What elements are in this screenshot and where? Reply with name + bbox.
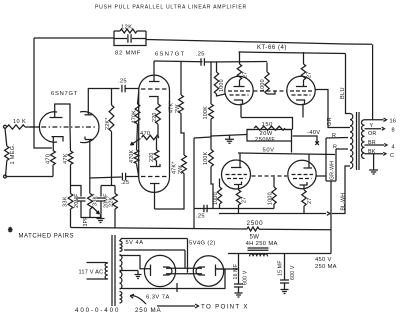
label .25 no4 <box>121 180 130 186</box>
label 250MA r <box>315 264 337 270</box>
x mark bias <box>315 141 319 145</box>
cathode bar KT3 <box>231 167 242 169</box>
label 20MF no2 <box>104 193 110 208</box>
label 27 no4 <box>307 198 313 204</box>
arrowhead plate rail <box>327 212 330 216</box>
PT sec 6.3V coil <box>120 292 122 303</box>
label 50V <box>263 148 275 154</box>
note matched pairs <box>8 227 74 240</box>
resistor 22K-star grid leak <box>109 105 114 132</box>
svg-text:400-0-400: 400-0-400 <box>75 307 120 314</box>
wire 5V top <box>120 239 188 242</box>
wire 220-2 top <box>156 138 158 151</box>
svg-text:3PF: 3PF <box>83 216 89 226</box>
label 117VAC <box>79 270 104 276</box>
wire top rail left <box>34 37 114 39</box>
svg-text:.25: .25 <box>196 52 205 58</box>
svg-text:8: 8 <box>392 128 395 134</box>
svg-text:5V 4A: 5V 4A <box>126 240 144 246</box>
svg-text:6SN7GT: 6SN7GT <box>155 52 185 58</box>
wire HV top to T5 plate <box>120 256 150 269</box>
resistor 47K* 2W no1 <box>179 95 184 113</box>
wire 33K to B+ rail <box>70 209 72 228</box>
label 5W <box>250 234 260 240</box>
svg-text:470: 470 <box>140 131 151 137</box>
wire 100K2 bottom <box>211 167 213 209</box>
wire 5V lower <box>124 249 185 251</box>
wire 1000-2 leads <box>267 63 275 95</box>
wire top rail right <box>146 40 372 45</box>
svg-text:22K*: 22K* <box>105 117 111 130</box>
label 470K no2 <box>129 149 135 163</box>
label 27 no2 <box>307 72 313 78</box>
wire V2 top plate to coupling <box>154 60 203 63</box>
plate bar V2 bottom <box>150 183 160 185</box>
svg-text:33K: 33K <box>63 196 69 207</box>
wire through fb box <box>114 38 146 40</box>
wire junction to 20MF <box>71 186 82 197</box>
resistor 470K no1 <box>135 104 140 124</box>
cathode bar KT2 <box>296 100 305 104</box>
label 600V no1 <box>243 270 249 285</box>
label .25 no2 <box>196 52 205 58</box>
svg-text:16 MF: 16 MF <box>233 264 239 280</box>
capacitor .25 no2 <box>201 58 204 66</box>
tube V2 bottom dome <box>139 177 170 192</box>
wire lower grid bus <box>194 208 274 210</box>
PT sec 5V coil <box>120 241 123 252</box>
label 100K no1 <box>203 106 209 120</box>
wire 47K*1 top <box>180 61 182 95</box>
svg-text:1 MEG.: 1 MEG. <box>10 144 16 165</box>
label 27 no3 <box>242 197 248 203</box>
wire plate bus upper <box>239 52 346 54</box>
tube KT66 no3 <box>222 160 251 189</box>
wire 47K to 33K <box>70 165 72 194</box>
svg-text:27: 27 <box>307 72 313 78</box>
svg-text:47K*: 47K* <box>169 100 175 113</box>
svg-text:GR-WH: GR-WH <box>330 161 336 180</box>
wire 47K*2 bottom <box>155 174 185 210</box>
label 4H 250MA <box>246 241 278 247</box>
label BK <box>368 149 376 155</box>
label OR <box>368 131 377 137</box>
label 10 K <box>13 119 26 125</box>
svg-text:33K*: 33K* <box>93 193 99 206</box>
tube V2 top dome <box>139 75 170 90</box>
label 8 <box>392 128 395 134</box>
wire input to grid <box>25 126 39 128</box>
PT primary coil <box>105 263 108 280</box>
wire 1000-1 leads <box>217 62 226 96</box>
wire 47K*1 to 47K*2 <box>181 114 184 156</box>
wire KT1 cathode <box>240 104 242 118</box>
svg-text:1000: 1000 <box>219 79 225 92</box>
label GR <box>327 117 333 126</box>
plate bar V1b <box>85 114 93 116</box>
wire feedback left vertical <box>34 38 52 148</box>
resistor 470K no2 <box>134 150 139 163</box>
arrow 8 <box>382 127 385 130</box>
wire B+ rail left <box>71 228 248 230</box>
grid dash V2 bottom <box>141 176 168 178</box>
label 600V no2 <box>290 265 296 280</box>
resistor 27 no3 <box>236 190 240 205</box>
svg-text:5V4G (2): 5V4G (2) <box>189 241 216 247</box>
label 2500 <box>247 220 264 227</box>
wire R tap2 <box>336 148 348 150</box>
wire V2 top plate up <box>153 61 155 82</box>
ground sym bias <box>97 215 105 223</box>
plate bar KT3 <box>234 182 242 185</box>
wire 20MF1 bottom <box>81 201 90 218</box>
wire 470 to rail <box>52 165 54 177</box>
capacitor C-fb 82MMF <box>128 34 131 43</box>
wire rect output riser <box>217 254 239 270</box>
svg-text:47K*: 47K* <box>172 161 178 174</box>
wire bias to box <box>211 135 247 137</box>
plate bar V1a <box>50 117 63 119</box>
svg-text:2W: 2W <box>178 165 184 174</box>
label 15 MF <box>278 260 284 276</box>
label 5V4G (2) <box>189 241 216 247</box>
resistor 27 no4 <box>302 190 306 206</box>
svg-text:OR: OR <box>368 131 377 137</box>
svg-text:470K: 470K <box>132 110 138 124</box>
cathode bar KT4 <box>304 167 313 169</box>
wire choke rail left <box>228 253 331 255</box>
wire riser A <box>325 138 327 181</box>
svg-text:220: 220 <box>152 112 158 122</box>
capacitor .25 no3 <box>204 205 207 212</box>
resistor 100K no2 <box>209 150 214 167</box>
cathode bar V1a <box>52 137 64 142</box>
label 6.3V 7A <box>146 295 170 301</box>
dash link grids lower <box>252 175 288 177</box>
label 22K <box>109 197 115 207</box>
parallel box sides+bottom <box>114 31 146 46</box>
label 100K no2 <box>203 151 209 165</box>
label 250 MA <box>135 307 161 314</box>
wire 100K mid <box>210 119 212 150</box>
wire KT4 cathode top <box>308 155 310 169</box>
wiper arrow pot <box>131 139 141 146</box>
wire sec tap 8 <box>365 128 382 130</box>
label 1000 no2 <box>260 79 266 92</box>
wire junction2 <box>101 185 115 187</box>
dash link grids upper <box>254 90 287 92</box>
tube 5V4G no1 <box>144 255 175 286</box>
svg-text:1000: 1000 <box>268 192 274 205</box>
wire 27-4 bottom <box>303 206 305 213</box>
wire sec tap 4 <box>365 144 385 146</box>
tube KT66 no4 <box>288 160 316 188</box>
choke core bars <box>248 248 269 250</box>
wire lower plate rail <box>219 213 326 215</box>
wire 470K1 to 470K2 <box>137 124 138 150</box>
label 4 <box>392 145 395 151</box>
ground sym OPT <box>369 166 378 174</box>
PT primary leads <box>87 263 107 280</box>
ground 15MF <box>281 286 289 294</box>
wire cathode rail upper <box>241 118 293 130</box>
plate bar KT4 <box>300 182 308 185</box>
wire KT3 cathode top <box>239 153 241 168</box>
arrow to point x <box>195 304 198 308</box>
cathode bar V2 top <box>149 97 158 100</box>
svg-text:R: R <box>332 133 336 139</box>
label 3PF <box>83 216 89 226</box>
label R no2 <box>333 145 337 151</box>
filament tab T5 <box>163 267 172 275</box>
label 1000 no4 <box>268 192 274 205</box>
wire 1MEG top <box>5 128 7 146</box>
wire BLU plate1 <box>346 54 351 114</box>
label 6SN7GT input <box>51 91 78 97</box>
wire V1a plate to V1b grid <box>55 104 70 126</box>
label 82 MMF <box>115 51 141 57</box>
resistor 1000 no4 <box>272 187 276 204</box>
label 47K* 2W no2 <box>172 161 185 174</box>
wire 47K top <box>69 126 72 151</box>
ground terminal lower <box>4 175 7 178</box>
wire 220-1 to pot <box>158 124 159 138</box>
svg-text:27: 27 <box>242 197 248 203</box>
wire cap2 to grid bus <box>205 61 268 64</box>
capacitor 15MF <box>280 254 289 286</box>
svg-text:.25: .25 <box>121 180 130 186</box>
wire cap4 to grid <box>126 176 139 178</box>
svg-text:100K: 100K <box>203 106 209 120</box>
resistor 47K* 2W no2 <box>182 155 187 173</box>
wire 22K* top <box>111 89 113 106</box>
label 22K* <box>105 117 111 130</box>
svg-text:470K: 470K <box>129 149 135 163</box>
label 220 no1 <box>152 112 158 122</box>
wire cap1 to V2 grid <box>126 88 140 90</box>
wire 27-2 leads <box>303 52 305 87</box>
svg-text:-40V: -40V <box>307 130 320 136</box>
svg-text:600 V: 600 V <box>243 270 249 285</box>
wire 470K1 top <box>138 92 139 104</box>
resistor 100K no1 <box>209 104 214 119</box>
resistor 1MEG <box>5 146 9 160</box>
wire V2 bottom plate down <box>154 184 156 210</box>
svg-text:.25: .25 <box>196 214 205 220</box>
wire riser join <box>326 180 336 182</box>
wire to point x <box>157 305 195 307</box>
capacitor 16MF <box>234 269 243 289</box>
svg-text:5W: 5W <box>250 234 260 240</box>
label 33K* <box>93 193 99 206</box>
cathode bar KT1 <box>234 100 243 104</box>
wire KT3 plate down <box>238 185 240 191</box>
wire sec tap 16 <box>365 119 384 121</box>
label C <box>390 153 394 159</box>
filament bus <box>166 268 202 273</box>
wire 5V drops <box>185 239 188 273</box>
wire feedback drop to 16-ohm tap <box>372 44 374 119</box>
OPT primary coil <box>350 114 353 169</box>
label 20MF no1 <box>74 193 80 208</box>
wire 1MEG bottom <box>6 161 7 177</box>
label .25 no1 <box>118 79 127 85</box>
svg-text:1000: 1000 <box>213 192 219 205</box>
tube 5V4G no2 <box>193 256 223 286</box>
wire KT4 plate down <box>303 185 305 190</box>
resistor 2500 5W <box>247 227 259 231</box>
wire junction down 195 <box>193 209 195 229</box>
label GR-WH <box>330 161 336 180</box>
tube V1b envelope (right half) <box>80 112 99 143</box>
svg-text:2W: 2W <box>175 104 181 113</box>
svg-text:KT-66 (4): KT-66 (4) <box>257 45 287 51</box>
grid dash KT3 <box>226 175 248 179</box>
svg-text:250MF: 250MF <box>255 137 275 143</box>
input terminal <box>4 125 7 128</box>
wire cathode net to cap <box>90 177 122 178</box>
svg-text:250 MA: 250 MA <box>135 307 161 314</box>
wire R tap1 <box>326 137 348 140</box>
label 470 pot <box>140 131 151 137</box>
svg-text:22K: 22K <box>109 197 115 207</box>
label KT-66 (4) <box>257 45 287 51</box>
wire box to lower rail <box>291 141 293 153</box>
capacitor 20MF no2 <box>97 186 106 202</box>
label 16 MF <box>233 264 239 280</box>
wire B+ rail right <box>259 228 331 231</box>
label 27 no1 <box>243 72 249 78</box>
label 16 <box>390 119 397 125</box>
resistor 22K <box>113 186 118 210</box>
resistor 220 no2 <box>154 150 159 160</box>
label BLU <box>340 87 346 99</box>
svg-text:600 V: 600 V <box>290 265 296 280</box>
svg-text:10 K: 10 K <box>13 119 26 125</box>
PT sec HV coil <box>120 255 122 290</box>
grid dash KT2 <box>290 91 312 95</box>
label 47K* 2W no1 <box>169 100 182 113</box>
label 1000 no3 <box>213 192 219 205</box>
wire 27-3 bottom <box>238 205 240 213</box>
resistor 33K <box>68 194 73 210</box>
svg-text:C: C <box>390 153 394 159</box>
PT core <box>112 235 115 306</box>
svg-text:47K: 47K <box>63 153 69 164</box>
resistor 150 20W in box <box>247 126 292 130</box>
svg-text:4H 250 MA: 4H 250 MA <box>246 241 278 247</box>
wire 220-2 to cath <box>156 161 158 167</box>
svg-text:250 MA: 250 MA <box>315 264 337 270</box>
wire V1b plate up to coupling <box>88 89 119 115</box>
grid dash KT1 <box>228 91 250 95</box>
OPT core <box>357 112 360 170</box>
wire cath to 220 <box>157 99 159 104</box>
svg-text:PUSH PULL PARALLEL ULTRA LINEA: PUSH PULL PARALLEL ULTRA LINEAR AMPLIFIE… <box>95 5 247 11</box>
wire riser B <box>335 149 337 181</box>
svg-text:100K: 100K <box>203 151 209 165</box>
choke 4H winding <box>250 254 268 257</box>
wire 100K1 top <box>210 62 212 104</box>
OPT secondary coil <box>362 120 365 159</box>
ground 16MF <box>235 289 243 297</box>
svg-text:50V: 50V <box>263 148 275 154</box>
wire 1000-3 leads <box>219 179 221 209</box>
wire V1b cathode down <box>89 140 91 194</box>
arrow 16 <box>384 118 387 121</box>
wire sec tap C <box>365 153 384 155</box>
label 20W <box>260 131 273 137</box>
tube V1a envelope (left half) <box>39 112 57 142</box>
wire riser main <box>330 181 332 254</box>
svg-text:MATCHED PAIRS: MATCHED PAIRS <box>19 234 75 240</box>
capacitor .25 no4 <box>122 173 125 180</box>
svg-text:220: 220 <box>149 152 155 162</box>
svg-text:2500: 2500 <box>247 220 264 227</box>
cathode bar V1b <box>85 137 94 140</box>
wire bias drop <box>193 138 195 209</box>
label Y <box>370 123 374 129</box>
plate bar T5 <box>149 265 151 277</box>
label 12K <box>121 25 132 31</box>
label 1000 no1 <box>219 79 225 92</box>
filament tab T6 <box>196 267 205 275</box>
wire 27-1 leads <box>239 52 241 87</box>
svg-text:470: 470 <box>46 154 52 164</box>
svg-text:12K: 12K <box>121 25 132 31</box>
resistor 27 no2 <box>301 64 305 80</box>
wire cathode rail lower <box>238 153 335 155</box>
label R no1 <box>332 133 336 139</box>
label 6SN7GT driver <box>155 52 185 58</box>
title text <box>95 5 247 11</box>
plate bar KT2 <box>296 86 307 88</box>
wire 470K2 bottom <box>137 164 139 177</box>
resistor 220 no1 <box>156 104 161 124</box>
wire HV center tap <box>120 270 139 272</box>
label 5V 4A <box>126 240 144 246</box>
wire GR screen1 <box>315 90 350 128</box>
wire BLWH plate2 <box>332 166 350 214</box>
label 150 <box>262 122 273 128</box>
cathode bar V2 bottom <box>150 164 160 167</box>
label 33K <box>63 196 69 207</box>
wire -40V stub <box>293 136 318 143</box>
label 1 MEG <box>10 144 16 165</box>
svg-text:.25: .25 <box>118 79 127 85</box>
label 220 no2 <box>149 152 155 162</box>
resistor 1000 no3 <box>217 187 221 204</box>
wire V1a cathode down <box>52 137 54 151</box>
label 47K <box>63 153 69 164</box>
wire bottom ground rail <box>7 176 54 178</box>
wiper arrow to ground <box>92 207 100 215</box>
wire sec ground <box>373 154 375 166</box>
ground sym PT <box>135 271 142 279</box>
capacitor 20MF no1 <box>77 198 86 201</box>
label 450V <box>315 257 332 263</box>
resistor 47K <box>68 151 73 165</box>
label 250MF <box>255 137 275 143</box>
wire bias tap left <box>194 137 211 138</box>
svg-text:4: 4 <box>392 145 395 151</box>
svg-text:82 MMF: 82 MMF <box>115 51 141 57</box>
svg-text:450 V: 450 V <box>315 257 332 263</box>
resistor 33K-star <box>88 194 93 210</box>
resistor 27 no1 <box>237 64 241 80</box>
resistor 1000 no2 <box>265 72 269 94</box>
capacitor .25 no1 <box>122 85 125 92</box>
